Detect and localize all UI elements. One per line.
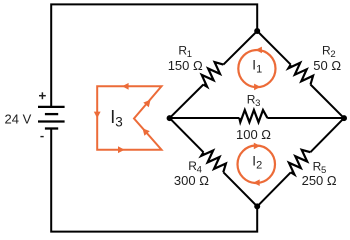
mesh current loop I1 circle xyxy=(238,50,275,87)
wire left node to R1 xyxy=(170,85,204,119)
svg-text:300 Ω: 300 Ω xyxy=(174,173,209,188)
wire R2 to right node xyxy=(311,85,345,119)
mesh current loop I2 circle xyxy=(238,146,276,184)
svg-text:24 V: 24 V xyxy=(5,112,32,127)
svg-text:50 Ω: 50 Ω xyxy=(313,58,341,73)
resistor R2 zigzag xyxy=(288,63,313,85)
mesh current loop I3 arrow bottom edge (rightward) xyxy=(118,146,125,153)
wire top node to R2 xyxy=(257,31,291,65)
wire from battery - terminal down and across to bottom node xyxy=(51,128,257,231)
mesh current loop I1 arrow top (counterclockwise) xyxy=(255,47,262,54)
wire R1 to top node xyxy=(223,31,257,65)
resistor R4 zigzag xyxy=(201,151,226,173)
node bottom junction dot xyxy=(254,203,260,209)
wire right node to R5 xyxy=(310,118,344,152)
svg-text:I2: I2 xyxy=(252,153,262,171)
wire from battery + terminal up and across to top node xyxy=(51,4,257,107)
battery + sign xyxy=(39,92,46,99)
resistor R3 zigzag xyxy=(239,110,267,122)
svg-text:R3: R3 xyxy=(247,93,261,110)
node right junction dot xyxy=(341,115,347,121)
battery B1 plate short bottom (-) xyxy=(45,127,58,129)
resistor R5 zigzag xyxy=(289,150,311,175)
mesh current loop I3 arrow left edge (downward) xyxy=(94,112,101,119)
svg-text:250 Ω: 250 Ω xyxy=(302,173,337,188)
mesh current loop I2 arrow top (clockwise) xyxy=(254,143,260,150)
mesh current loop I1 arrow bottom xyxy=(254,84,261,91)
wire R5 to bottom node xyxy=(257,172,291,206)
mesh current loop I3 polygon xyxy=(97,86,161,149)
wire R3 to right node xyxy=(267,117,344,119)
resistor R1 zigzag xyxy=(202,62,224,87)
mesh current loop I3 arrow upper diagonal xyxy=(143,100,150,108)
mesh current loop I2 arrow bottom xyxy=(253,179,260,186)
svg-text:100 Ω: 100 Ω xyxy=(236,127,271,142)
node top junction dot xyxy=(254,28,260,34)
mesh current loop I3 arrow top edge (leftward) xyxy=(122,83,129,90)
battery B1 plate long top (+) xyxy=(38,106,65,108)
battery B1 plate short xyxy=(45,113,58,115)
battery B1 plate long xyxy=(38,120,65,122)
mesh current loop I3 arrow lower diagonal xyxy=(143,128,150,136)
svg-text:I3: I3 xyxy=(110,107,123,130)
node left junction dot xyxy=(167,115,173,121)
battery - sign xyxy=(40,136,43,138)
svg-text:150 Ω: 150 Ω xyxy=(168,58,203,73)
wire R4 to bottom node xyxy=(223,172,257,206)
wire left node to R4 xyxy=(170,118,204,152)
wire left node to R3 xyxy=(170,117,240,119)
svg-text:I1: I1 xyxy=(252,57,262,75)
